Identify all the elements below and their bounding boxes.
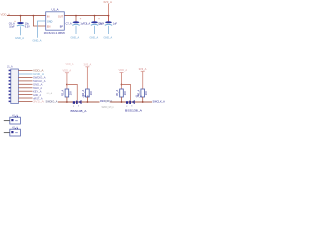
- junction right: [142, 101, 144, 103]
- junction right: [87, 101, 89, 103]
- junction left: [121, 101, 123, 103]
- wire VDD_A rail: [7, 15, 46, 17]
- transistor Q2: [126, 95, 142, 108]
- wire EN: [33, 16, 45, 26]
- svg-text:C8_A: C8_A: [84, 23, 90, 26]
- pin row 9: [9, 97, 11, 99]
- pin row 6: [9, 87, 11, 89]
- svg-text:GND_A: GND_A: [104, 37, 113, 40]
- svg-text:C7_A: C7_A: [66, 23, 72, 26]
- resistor R5: [120, 89, 124, 97]
- svg-text:10K: 10K: [145, 90, 148, 95]
- level shifter block A: [46, 63, 114, 114]
- level shifter block B: [105, 67, 166, 112]
- svg-text:2: 2: [73, 106, 74, 108]
- svg-text:VDD_A: VDD_A: [119, 68, 128, 72]
- svg-text:MIC5219-3.3BM5: MIC5219-3.3BM5: [44, 31, 66, 35]
- svg-text:Q2_A: Q2_A: [136, 95, 143, 98]
- capacitor C6: [9, 20, 30, 29]
- svg-text:SWCLK_A: SWCLK_A: [153, 99, 166, 103]
- junction EN tap: [33, 15, 35, 17]
- svg-text:EN: EN: [47, 26, 51, 29]
- wire VDD pullup: [66, 73, 68, 89]
- svg-text:Q1_A: Q1_A: [83, 95, 90, 98]
- junction gate tap: [121, 84, 123, 86]
- connector pins: [9, 70, 46, 104]
- svg-text:IN: IN: [47, 15, 50, 18]
- svg-text:U1_A: U1_A: [52, 8, 59, 12]
- junction C8: [94, 15, 96, 17]
- svg-text:SWDIO_A: SWDIO_A: [46, 100, 58, 104]
- svg-text:10K: 10K: [90, 90, 93, 95]
- wire 3V3 pullup: [86, 67, 88, 89]
- svg-text:GND_A: GND_A: [15, 36, 24, 40]
- transistor Q1: [73, 95, 89, 108]
- wire SWCLK row: [110, 101, 152, 103]
- capacitor C7: [66, 16, 85, 40]
- wire VDD pullup: [121, 73, 123, 90]
- svg-text:C9_A: C9_A: [98, 23, 104, 26]
- fiducial H1: [4, 115, 21, 124]
- pin row 3: [9, 77, 11, 79]
- wire C6 to gnd: [20, 26, 22, 35]
- svg-text:10uF: 10uF: [9, 25, 15, 28]
- svg-text:3: 3: [78, 106, 79, 108]
- svg-text:6.3V: 6.3V: [25, 25, 30, 28]
- junction gate tap: [66, 84, 68, 86]
- svg-text:3V3_A: 3V3_A: [103, 0, 112, 4]
- svg-text:10K: 10K: [124, 90, 127, 95]
- wire C6 stub: [20, 16, 22, 22]
- pin row 4: [9, 80, 11, 82]
- svg-text:OUT: OUT: [58, 15, 64, 18]
- svg-text:KEY_A: KEY_A: [33, 91, 42, 94]
- pin row 1: [9, 70, 11, 72]
- svg-text:3V3_A: 3V3_A: [33, 101, 45, 104]
- svg-text:SWCLK_A: SWCLK_A: [33, 80, 46, 83]
- wire 3V3 rail: [64, 15, 108, 17]
- regulator U1 box: [46, 12, 65, 30]
- svg-text:SWO_A: SWO_A: [33, 87, 43, 90]
- capacitor C8: [84, 16, 103, 40]
- svg-text:J1_A: J1_A: [7, 65, 13, 68]
- svg-text:GND_A: GND_A: [90, 37, 99, 40]
- resistor R3: [65, 89, 69, 97]
- wire U1 GND pin: [38, 21, 46, 38]
- junction C9: [108, 15, 110, 17]
- svg-text:VDD_A: VDD_A: [33, 70, 44, 73]
- junction C6 tap: [20, 15, 22, 17]
- pin row 7: [9, 90, 11, 92]
- svg-text:GND_A: GND_A: [33, 73, 45, 76]
- svg-text:R3_A: R3_A: [62, 90, 65, 97]
- pin row 5: [9, 84, 11, 86]
- wire gate: [67, 85, 77, 101]
- resistor R6: [141, 89, 145, 97]
- svg-text:GND_A: GND_A: [105, 100, 113, 103]
- svg-text:VDD_A: VDD_A: [66, 63, 74, 66]
- resistor R4: [86, 89, 90, 97]
- wire R4 bottom: [86, 97, 88, 102]
- svg-text:1uF: 1uF: [113, 23, 118, 26]
- fiducial H2: [4, 127, 21, 136]
- wire gate: [122, 85, 131, 101]
- svg-text:BSS138_A: BSS138_A: [71, 109, 87, 113]
- svg-text:BP: BP: [60, 26, 64, 29]
- connector J1 body: [11, 69, 19, 104]
- wire R6 bottom: [142, 97, 144, 102]
- svg-text:3V3_A: 3V3_A: [139, 67, 147, 71]
- wire 3V3 riser: [108, 4, 110, 16]
- svg-text:R5_A: R5_A: [116, 90, 119, 97]
- svg-text:3: 3: [131, 106, 132, 108]
- wire 3V3 pullup: [142, 71, 144, 89]
- pin row 8: [9, 94, 11, 96]
- svg-text:3V3_A: 3V3_A: [84, 63, 92, 67]
- pin row 2: [9, 73, 11, 75]
- svg-text:nRST_A: nRST_A: [33, 97, 43, 100]
- capacitor C9: [98, 16, 117, 40]
- junction left: [66, 101, 68, 103]
- wire R5 bottom: [121, 97, 123, 102]
- svg-text:GND_A: GND_A: [33, 84, 43, 87]
- svg-text:BSS138_A: BSS138_A: [125, 108, 142, 112]
- junction C7: [75, 15, 77, 17]
- svg-text:GND: GND: [47, 20, 53, 23]
- svg-text:GND_A: GND_A: [71, 37, 80, 40]
- svg-text:10K: 10K: [69, 90, 72, 95]
- svg-text:GND_A: GND_A: [33, 94, 41, 97]
- svg-text:SWDIO_3V3_A: SWDIO_3V3_A: [102, 106, 114, 109]
- svg-text:VDD_A: VDD_A: [63, 68, 72, 72]
- svg-text:G5_A: G5_A: [47, 92, 53, 95]
- svg-text:GND_A: GND_A: [33, 39, 42, 43]
- wire R3 bottom: [66, 97, 68, 102]
- pin row 10: [9, 101, 11, 103]
- wire SWDIO row: [58, 101, 100, 103]
- svg-text:SWDIO_A: SWDIO_A: [33, 77, 46, 80]
